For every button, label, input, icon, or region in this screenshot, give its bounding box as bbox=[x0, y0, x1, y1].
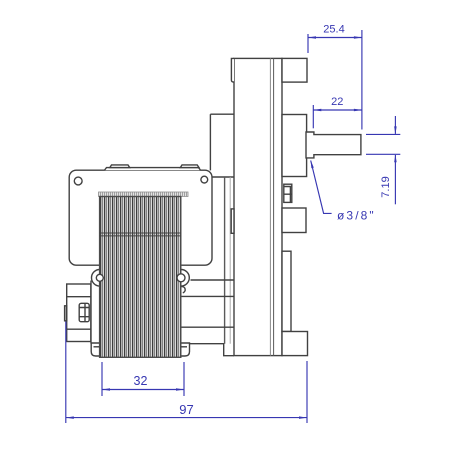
shaft hub and output shaft bbox=[306, 132, 361, 158]
arrow 97 left bbox=[66, 416, 74, 419]
dim 25.4/22 extension right bbox=[361, 30, 363, 130]
dim 22 line bbox=[313, 109, 362, 111]
arrow 97 right bbox=[299, 416, 307, 419]
svg-text:32: 32 bbox=[134, 374, 148, 388]
svg-text:25.4: 25.4 bbox=[323, 24, 344, 36]
svg-text:22: 22 bbox=[331, 96, 343, 108]
dim 25.4 extension left bbox=[307, 34, 309, 53]
lamination stack bbox=[100, 197, 181, 358]
bracket vertical plate line faint bbox=[229, 177, 231, 344]
cover screw hole top-left bbox=[74, 177, 82, 185]
leader line for shaft diameter bbox=[311, 161, 332, 214]
connector line y296.4 bbox=[181, 295, 234, 297]
dim 32 extension left bbox=[101, 362, 103, 396]
connector line y327.2 bbox=[181, 326, 234, 328]
motor strap plate top edge bbox=[210, 113, 233, 115]
arrow leader bbox=[311, 160, 314, 168]
terminal box upper divider bbox=[67, 296, 91, 298]
left rib bbox=[231, 209, 234, 233]
gear plate inner line 1 bbox=[269, 58, 271, 355]
dim 25.4 line bbox=[308, 37, 362, 39]
right thin rib bbox=[282, 251, 291, 331]
middle gear boss bbox=[282, 208, 306, 233]
arrow 32 right bbox=[176, 388, 184, 391]
gearbox bolt facets bbox=[284, 187, 292, 203]
bolt hex head (left box) bbox=[79, 303, 89, 321]
terminal box (left) bbox=[67, 284, 91, 342]
arrow 7.19 bottom bbox=[394, 154, 397, 162]
svg-text:ø3/8": ø3/8" bbox=[337, 209, 376, 223]
arrow 25.4 left bbox=[308, 36, 316, 39]
bracket ear boss left (outer) bbox=[92, 270, 109, 287]
bracket bottom tab left bbox=[91, 343, 103, 356]
lamination divider line 1 bbox=[100, 232, 181, 234]
dim 97 extension left bbox=[65, 322, 67, 424]
output bearing boss bbox=[282, 115, 307, 177]
dim 32 extension right bbox=[183, 362, 185, 396]
gearbox bolt bbox=[284, 184, 292, 202]
dim 7.19 line lower bbox=[394, 155, 396, 204]
dim 7.19 extension bottom bbox=[366, 153, 400, 155]
arrow 25.4 right bbox=[354, 36, 362, 39]
dim 97 extension right bbox=[306, 361, 308, 423]
lamination divider line 2 bbox=[100, 235, 181, 237]
bracket ear hole left bbox=[96, 274, 103, 281]
arrow 22 left bbox=[313, 109, 321, 112]
connector line y280 bbox=[191, 279, 234, 281]
arrow 32 left bbox=[102, 388, 110, 391]
gear plate column bbox=[234, 58, 282, 355]
svg-text:7.19: 7.19 bbox=[380, 176, 392, 197]
svg-text:97: 97 bbox=[179, 402, 193, 417]
motor strap plate left edge bbox=[209, 114, 211, 170]
cover screw hole top-right bbox=[201, 176, 208, 183]
gear plate inner line 2 bbox=[273, 58, 275, 355]
bracket tab inner line left bbox=[94, 346, 100, 348]
top-right mounting ear bbox=[282, 58, 307, 82]
bracket vertical plate line bbox=[224, 177, 226, 344]
cover top strip bbox=[105, 168, 201, 171]
motor cover (coil housing, rounded rect) bbox=[69, 170, 212, 265]
terminal box left tab bbox=[65, 306, 67, 321]
arrow 22 right bbox=[354, 109, 362, 112]
bracket bottom step bbox=[190, 344, 235, 356]
dim 32 line bbox=[102, 389, 184, 391]
cover top bump right bbox=[180, 165, 199, 168]
dim 22 extension left bbox=[312, 105, 314, 128]
dim 7.19 line upper bbox=[394, 116, 396, 134]
arrow 7.19 top bbox=[394, 126, 397, 134]
cover top bump left bbox=[110, 165, 130, 168]
terminal box lower divider bbox=[67, 328, 91, 330]
dim 7.19 extension top bbox=[366, 133, 400, 135]
dim 97 line bbox=[66, 417, 307, 419]
bolt facet lines bbox=[79, 303, 89, 321]
bracket horizontal line upper (cover right to bracket) bbox=[212, 176, 234, 178]
bracket ear hole right bbox=[177, 274, 185, 282]
coil top band bbox=[99, 192, 189, 197]
top-left mounting tab bbox=[231, 58, 234, 82]
gearbox foot bbox=[282, 332, 308, 356]
bracket ear boss right (outer) bbox=[173, 270, 190, 287]
bracket bottom tab right bbox=[177, 343, 190, 356]
bracket tab inner line right bbox=[181, 346, 187, 348]
end bracket left edge bbox=[90, 281, 92, 344]
bracket cove below right ear bbox=[181, 286, 185, 292]
